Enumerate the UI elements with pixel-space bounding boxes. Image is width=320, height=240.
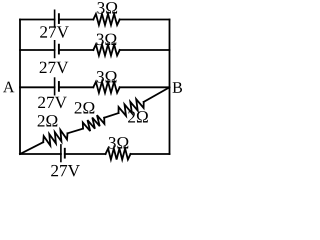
label V1 value 27V [40,26,69,38]
wire row3 mid [59,86,93,88]
wire bottom right [131,153,170,155]
wire row3 right (node B) [120,86,170,88]
wire row2 right [120,49,170,51]
node A [3,82,14,93]
label V3 value 27V [38,97,67,109]
wire diagonal segment 2 [68,129,84,134]
wire diagonal segment 3 [104,113,118,118]
resistor R5 2ohm [43,130,67,146]
label R3 value 3ohm [97,71,117,83]
wire row1 left [20,19,55,21]
resistor R6 2ohm [83,115,105,131]
resistor R4 3ohm [106,149,131,160]
wire right vertical [169,20,171,155]
wire left vertical [19,20,21,155]
label R6 value 2ohm [75,102,95,113]
wire bottom left [20,153,61,155]
label R4 value 3ohm [109,137,129,149]
battery V4 short plate [64,149,66,158]
resistor R7 2ohm [119,99,144,116]
wire bottom mid [65,153,106,155]
label V2 value 27V [40,62,69,74]
battery V3 short plate [58,82,60,91]
label R2 value 3ohm [97,34,117,46]
label R1 value 3ohm [97,2,117,14]
battery V1 short plate [58,14,60,23]
label R7 value 2ohm [128,111,148,122]
wire row1 right [120,19,170,21]
battery V1 long plate [54,10,56,27]
wire row3 left (node A) [20,86,55,88]
battery V2 short plate [58,45,60,54]
label R5 value 2ohm [38,115,58,126]
battery V2 long plate [54,41,56,58]
resistor R1 3ohm [93,14,119,25]
wire row2 mid [59,49,93,51]
node B [173,82,182,93]
label V4 value 27V [51,165,80,177]
wire row2 left [20,49,55,51]
battery V4 long plate [60,145,62,162]
resistor R3 3ohm [93,82,119,93]
wire diagonal segment 4 [144,87,170,102]
battery V3 long plate [54,78,56,95]
wire row1 mid [59,19,93,21]
wire diagonal segment 1 [20,142,43,154]
resistor R2 3ohm [93,45,119,56]
